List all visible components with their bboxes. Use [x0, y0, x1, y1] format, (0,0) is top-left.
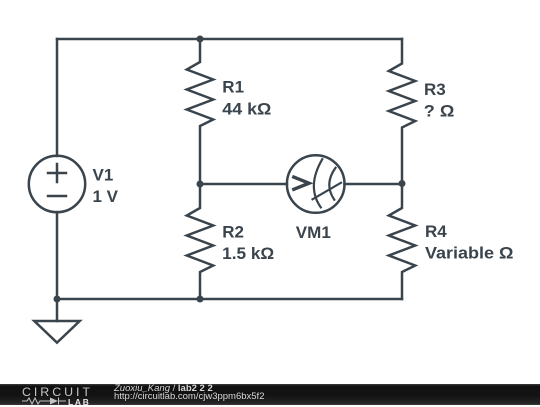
junction node A (top wire / R1)	[197, 36, 204, 43]
voltage source V1	[29, 156, 85, 212]
CircuitLab logo	[22, 384, 92, 405]
svg-text:VM1: VM1	[296, 223, 331, 242]
svg-text:1 V: 1 V	[93, 187, 119, 206]
resistor R2	[187, 184, 213, 299]
voltmeter VM1	[287, 155, 345, 213]
wire: top horizontal from V1 to node A	[57, 38, 200, 41]
wire: middle horizontal from VM1 to node C	[345, 183, 403, 186]
wire: bottom horizontal from ground node to node D	[57, 298, 200, 301]
label R3 value	[424, 80, 455, 120]
wire: bottom horizontal from node D to R4 corner	[200, 298, 402, 301]
svg-text:V1: V1	[93, 166, 114, 185]
label V1 value	[93, 166, 119, 207]
junction node D (bottom wire / R2)	[197, 296, 204, 303]
junction node C (middle wire / R3 R4)	[399, 180, 406, 187]
junction node B (middle wire / R1 R2)	[197, 181, 204, 188]
junction node at ground	[54, 296, 61, 303]
wire: left vertical from top wire to V1 + terminal	[56, 39, 59, 156]
wire: top horizontal from node A to R3 corner	[200, 38, 402, 41]
label R1 value	[222, 78, 271, 119]
footer bar	[0, 384, 540, 405]
svg-text:1.5 kΩ: 1.5 kΩ	[222, 244, 274, 263]
resistor R3	[389, 39, 415, 184]
label VM1	[296, 223, 331, 242]
wire: middle horizontal from node B to VM1	[200, 183, 287, 186]
credit text	[114, 385, 264, 402]
svg-text:44 kΩ: 44 kΩ	[222, 99, 271, 118]
svg-text:R2: R2	[222, 222, 244, 241]
resistor R4	[389, 184, 415, 300]
label R4 value	[425, 222, 514, 263]
label R2 value	[222, 222, 274, 262]
ground	[34, 299, 79, 343]
wire: left vertical from V1 - terminal to ground node	[56, 212, 59, 299]
svg-text:R4: R4	[425, 222, 447, 241]
resistor R1	[187, 39, 213, 184]
svg-text:? Ω: ? Ω	[424, 102, 455, 121]
svg-text:Variable Ω: Variable Ω	[425, 244, 514, 263]
svg-text:R1: R1	[222, 78, 244, 97]
svg-text:R3: R3	[424, 80, 446, 99]
